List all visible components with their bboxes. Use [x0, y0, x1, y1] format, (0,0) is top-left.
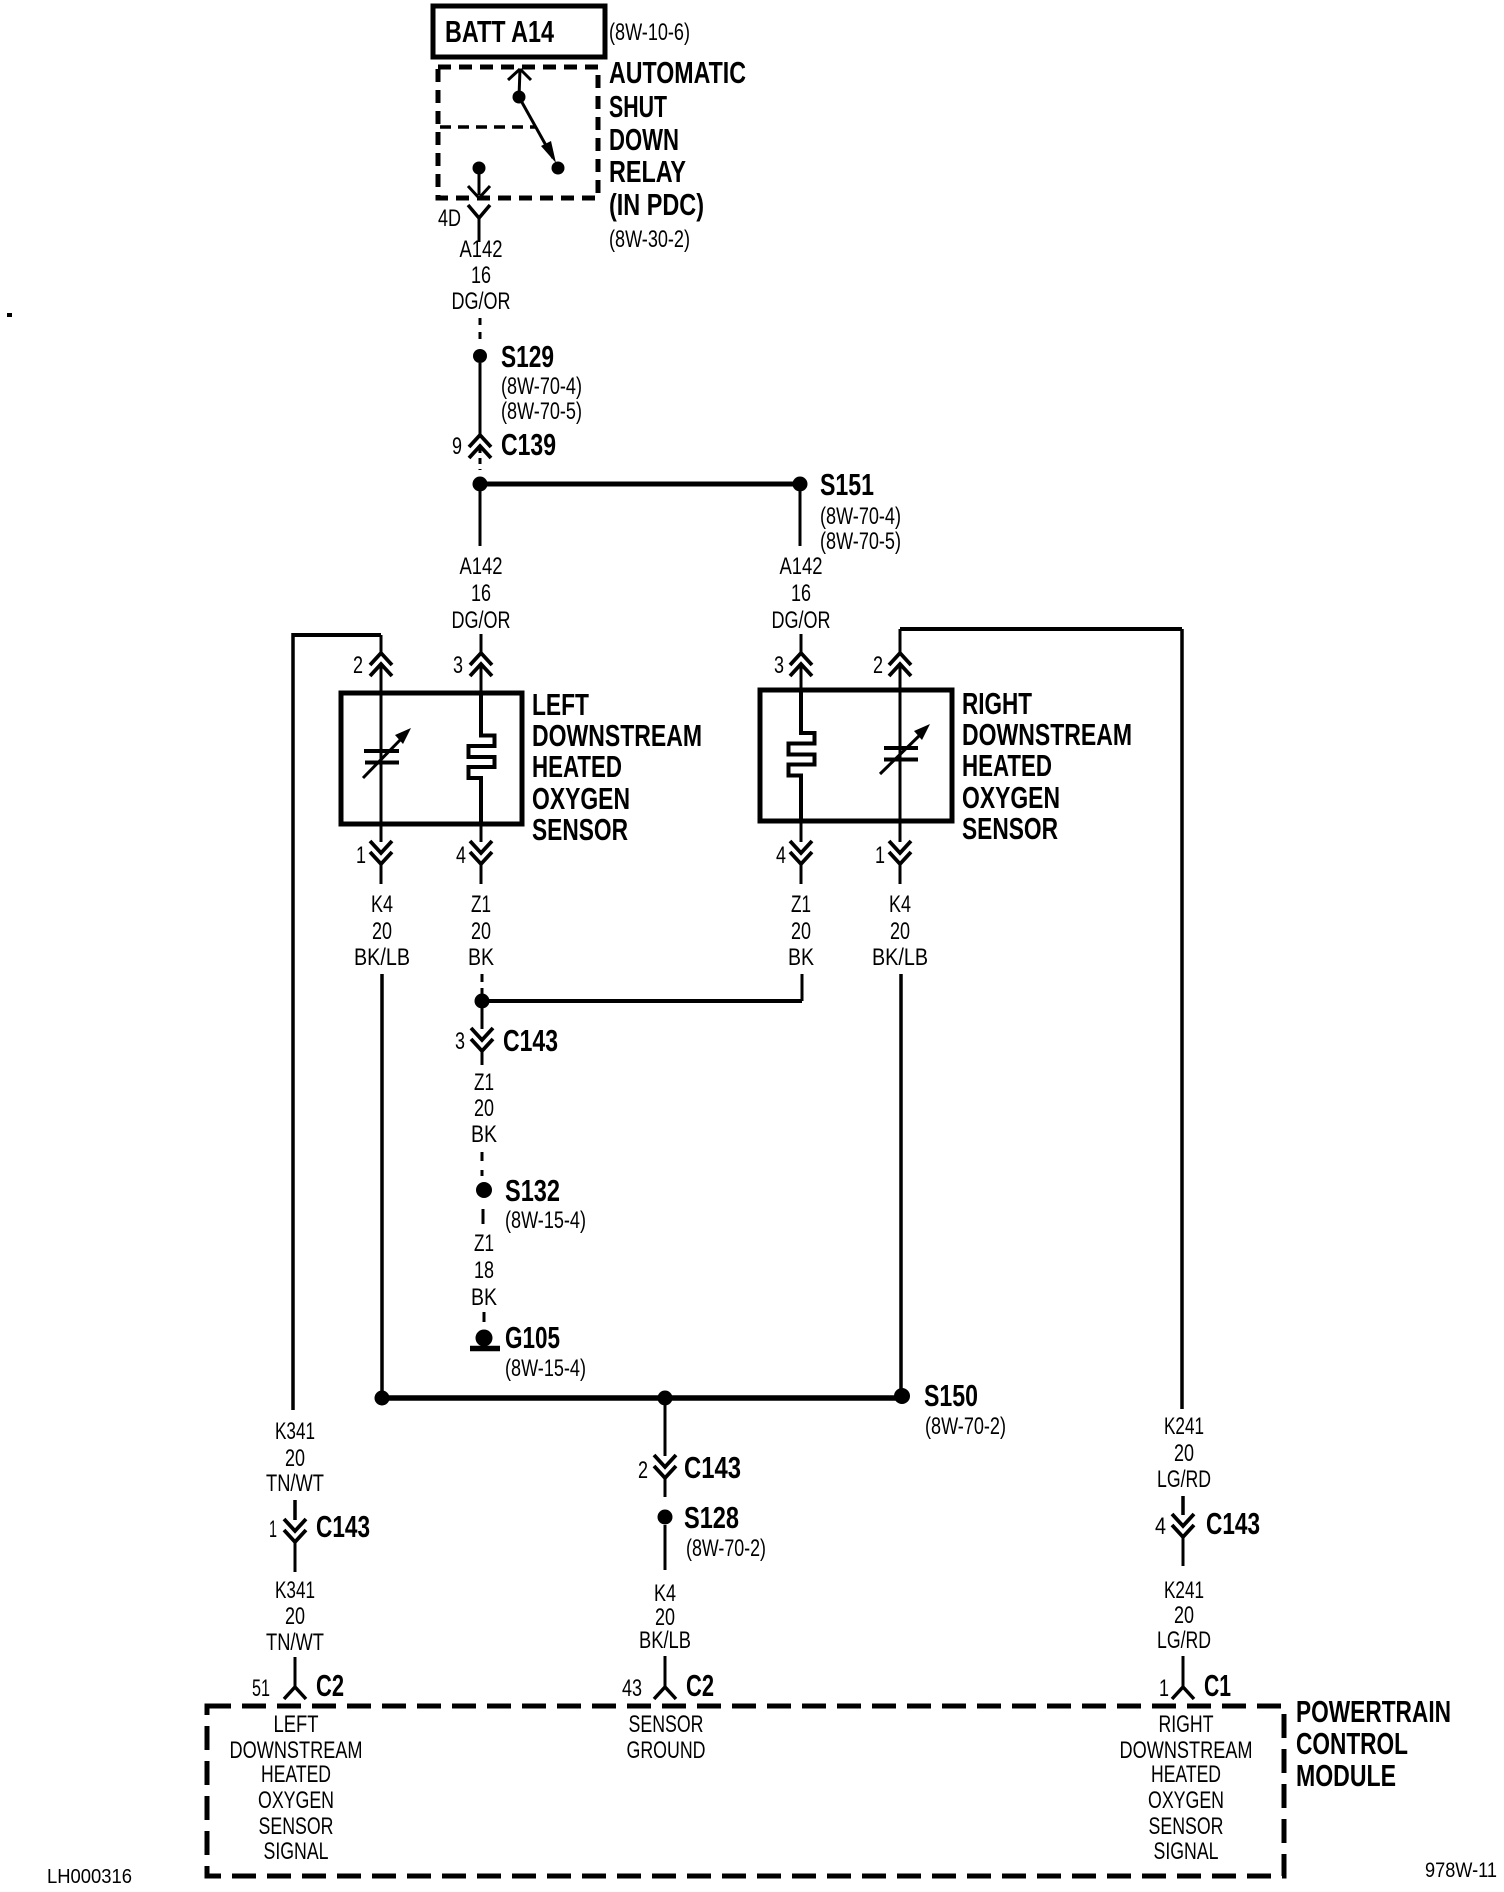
PCM pin function right — [1120, 1711, 1253, 1865]
svg-text:BATT A14: BATT A14 — [445, 14, 555, 49]
svg-text:20: 20 — [1174, 1602, 1194, 1629]
svg-text:OXYGEN: OXYGEN — [1148, 1787, 1224, 1814]
pin number 1 C1 — [1159, 1675, 1169, 1702]
connector C139 pin 9 — [469, 435, 491, 470]
relay output pin 4D — [468, 162, 490, 199]
wire label Z1 20 BK left — [468, 891, 494, 971]
wire dashed to G105 — [483, 1312, 486, 1322]
svg-text:K241: K241 — [1164, 1577, 1204, 1604]
svg-text:Z1: Z1 — [791, 891, 811, 918]
footer code LH000316 — [47, 1866, 132, 1888]
svg-text:C143: C143 — [684, 1450, 741, 1485]
relay name AUTOMATIC SHUT DOWN RELAY (IN PDC) — [609, 55, 746, 222]
svg-text:C143: C143 — [503, 1023, 558, 1058]
wire Z1 down to C143 — [481, 1008, 484, 1029]
svg-text:SHUT: SHUT — [609, 89, 667, 124]
svg-text:DOWNSTREAM: DOWNSTREAM — [1120, 1737, 1253, 1764]
svg-text:TN/WT: TN/WT — [266, 1470, 324, 1497]
wire into left box pin 3 — [480, 664, 483, 694]
svg-text:HEATED: HEATED — [1151, 1761, 1221, 1788]
label (8W-15-4) at G105 — [505, 1355, 586, 1382]
wire left pin 1 out — [380, 824, 383, 842]
svg-text:1: 1 — [875, 842, 885, 869]
pin number 3 left — [453, 652, 463, 679]
right sensor heater element — [789, 690, 815, 821]
svg-text:(8W-70-5): (8W-70-5) — [501, 398, 582, 425]
wire label K4 20 BK/LB left — [354, 891, 410, 971]
wire label K241 20 LG/RD upper — [1157, 1413, 1211, 1493]
splice S150 — [894, 1388, 910, 1404]
label (8W-30-2) — [609, 226, 690, 253]
svg-text:OXYGEN: OXYGEN — [258, 1787, 334, 1814]
wire bus to C143 pin 2 — [664, 1404, 667, 1456]
svg-text:HEATED: HEATED — [962, 748, 1052, 783]
svg-text:20: 20 — [372, 918, 392, 945]
wire into right box pin 3 — [800, 664, 803, 691]
relay common pin arrow to BATT — [508, 69, 531, 104]
wire dashed segment — [479, 318, 482, 342]
wire K241 to C143 — [1181, 1496, 1185, 1515]
label C143 right — [1206, 1506, 1260, 1541]
label S129 — [501, 339, 554, 374]
pin number 4 right — [776, 842, 786, 869]
svg-text:C139: C139 — [501, 427, 556, 462]
svg-text:(8W-70-2): (8W-70-2) — [686, 1535, 766, 1562]
svg-text:CONTROL: CONTROL — [1296, 1726, 1408, 1761]
pin number 2 left — [353, 652, 363, 679]
svg-text:OXYGEN: OXYGEN — [532, 781, 630, 816]
right downstream heated oxygen sensor box — [760, 690, 952, 821]
svg-text:K4: K4 — [654, 1580, 676, 1607]
connector 4D female fork — [468, 205, 490, 218]
wire into left box pin 2 — [380, 664, 383, 694]
wire left K4 down to ground bus — [380, 974, 384, 1398]
svg-text:BK: BK — [788, 944, 814, 971]
wire below S128 — [664, 1525, 667, 1570]
wire K341 to PCM — [294, 1657, 297, 1687]
wire ground bus — [382, 1395, 901, 1401]
svg-text:16: 16 — [471, 262, 491, 289]
svg-text:DG/OR: DG/OR — [452, 288, 511, 315]
pin number 4 left — [456, 842, 466, 869]
svg-text:K4: K4 — [889, 891, 911, 918]
svg-text:2: 2 — [638, 1457, 648, 1484]
svg-text:G105: G105 — [505, 1320, 560, 1355]
svg-text:LG/RD: LG/RD — [1157, 1466, 1211, 1493]
footer code 978W-11 — [1425, 1859, 1497, 1882]
svg-text:RIGHT: RIGHT — [962, 686, 1032, 721]
pin number 1 left — [356, 842, 366, 869]
wire stub right K4 — [899, 864, 902, 884]
splice S132 — [476, 1182, 492, 1198]
wire stub left Z1 — [480, 864, 483, 884]
junction node bus left — [375, 1391, 390, 1406]
svg-text:3: 3 — [774, 652, 784, 679]
PCM pin function middle — [627, 1711, 706, 1764]
pin number 9 — [452, 433, 462, 460]
label C2 left — [316, 1668, 344, 1703]
svg-text:BK/LB: BK/LB — [639, 1627, 691, 1654]
pin number 1 right — [875, 842, 885, 869]
wire into right box pin 2 — [899, 664, 902, 691]
connector C143 pin 2 — [654, 1455, 676, 1497]
svg-text:16: 16 — [471, 580, 491, 607]
svg-text:BK/LB: BK/LB — [354, 944, 410, 971]
connector pin 4 right — [790, 841, 812, 864]
svg-text:43: 43 — [622, 1675, 642, 1702]
relay movable contact arm — [519, 97, 565, 175]
svg-text:SENSOR: SENSOR — [532, 812, 628, 847]
junction node below C139 — [473, 477, 488, 492]
svg-text:SIGNAL: SIGNAL — [1154, 1838, 1219, 1865]
wire right sensor pin 2 loop — [900, 629, 1182, 1409]
wire right Z1 down — [801, 974, 804, 1001]
svg-text:(8W-15-4): (8W-15-4) — [505, 1207, 586, 1234]
svg-text:4: 4 — [776, 842, 786, 869]
svg-text:20: 20 — [285, 1445, 305, 1472]
svg-text:1: 1 — [269, 1516, 277, 1543]
ground G105 — [470, 1330, 500, 1349]
label (8W-70-2) at S128 — [686, 1535, 766, 1562]
svg-text:20: 20 — [791, 918, 811, 945]
wire label K4 20 BK/LB middle — [639, 1580, 691, 1654]
left downstream heated oxygen sensor box — [341, 693, 522, 824]
svg-text:LEFT: LEFT — [274, 1711, 319, 1738]
svg-text:BK: BK — [468, 944, 494, 971]
wire label K4 20 BK/LB right — [872, 891, 928, 971]
svg-text:DOWNSTREAM: DOWNSTREAM — [230, 1737, 363, 1764]
svg-text:S129: S129 — [501, 339, 554, 374]
powertrain control module dashed box — [207, 1706, 1284, 1876]
svg-text:A142: A142 — [460, 236, 503, 263]
relay internal divider — [440, 125, 535, 129]
wire A142 below relay — [478, 218, 481, 242]
svg-text:POWERTRAIN: POWERTRAIN — [1296, 1694, 1451, 1729]
svg-text:(8W-70-4): (8W-70-4) — [501, 373, 582, 400]
label C2 middle — [686, 1668, 714, 1703]
svg-text:(8W-10-6): (8W-10-6) — [609, 19, 690, 46]
label C143 middle — [684, 1450, 741, 1485]
svg-text:LH000316: LH000316 — [47, 1866, 132, 1888]
splice S129 — [473, 349, 487, 363]
junction node Z1 — [475, 994, 490, 1009]
connector pin 3 left sensor — [470, 653, 492, 676]
right sensor name — [962, 686, 1132, 846]
svg-text:1: 1 — [356, 842, 366, 869]
connector pin 3 right sensor — [790, 653, 812, 676]
svg-text:SENSOR: SENSOR — [962, 811, 1058, 846]
svg-text:A142: A142 — [460, 553, 503, 580]
svg-text:RELAY: RELAY — [609, 154, 686, 189]
wire to right sensor pin 3 — [800, 634, 803, 654]
wire label K341 20 TN/WT upper — [266, 1418, 324, 1497]
svg-text:LEFT: LEFT — [532, 687, 589, 722]
wire K4 to PCM — [664, 1656, 667, 1687]
svg-text:3: 3 — [455, 1028, 465, 1055]
label C143 left — [316, 1509, 370, 1544]
svg-text:SENSOR: SENSOR — [1149, 1813, 1224, 1840]
label S151 — [820, 467, 874, 502]
svg-text:SIGNAL: SIGNAL — [264, 1838, 329, 1865]
svg-text:TN/WT: TN/WT — [266, 1629, 324, 1656]
svg-text:9: 9 — [452, 433, 462, 460]
label S128 — [684, 1500, 739, 1535]
label C139 — [501, 427, 556, 462]
wire dashed to S132 — [481, 1152, 484, 1176]
svg-text:(8W-15-4): (8W-15-4) — [505, 1355, 586, 1382]
svg-text:SENSOR: SENSOR — [259, 1813, 334, 1840]
connector C143 pin 4 — [1172, 1514, 1194, 1566]
wire stub left K4 — [380, 864, 383, 884]
svg-text:20: 20 — [285, 1603, 305, 1630]
labels (8W-70-4) (8W-70-5) at S151 — [820, 503, 901, 555]
label (8W-15-4) at S132 — [505, 1207, 586, 1234]
pin number 2 C143 — [638, 1457, 648, 1484]
wire label Z1 20 BK common — [471, 1069, 497, 1148]
svg-text:BK: BK — [471, 1121, 497, 1148]
wire dashed below S132 — [482, 1209, 485, 1224]
svg-text:3: 3 — [453, 652, 463, 679]
svg-text:MODULE: MODULE — [1296, 1758, 1396, 1793]
svg-text:(8W-70-2): (8W-70-2) — [925, 1413, 1006, 1440]
connector pin 2 right sensor — [889, 653, 911, 676]
svg-text:DG/OR: DG/OR — [772, 607, 831, 634]
svg-text:Z1: Z1 — [474, 1069, 494, 1096]
pin number 3 C143 — [455, 1028, 465, 1055]
wire right pin 4 out — [800, 821, 803, 842]
svg-text:C143: C143 — [316, 1509, 370, 1544]
svg-text:C1: C1 — [1204, 1668, 1231, 1703]
wire label K241 20 LG/RD lower — [1157, 1577, 1211, 1654]
svg-text:K241: K241 — [1164, 1413, 1204, 1440]
connector pin 4 left — [470, 841, 492, 864]
svg-text:SENSOR: SENSOR — [629, 1711, 704, 1738]
svg-text:S151: S151 — [820, 467, 874, 502]
svg-text:20: 20 — [1174, 1440, 1194, 1467]
svg-text:(8W-70-4): (8W-70-4) — [820, 503, 901, 530]
svg-text:C2: C2 — [686, 1668, 714, 1703]
pin label 4D — [438, 205, 461, 232]
svg-text:GROUND: GROUND — [627, 1737, 706, 1764]
wire left Z1 to splice — [481, 974, 484, 1001]
svg-text:4: 4 — [1155, 1513, 1166, 1540]
pin number 51 — [252, 1675, 270, 1702]
splice S128 — [658, 1510, 673, 1525]
wire S129 to C139 — [479, 363, 482, 435]
svg-text:Z1: Z1 — [474, 1230, 494, 1257]
pin number 43 — [622, 1675, 642, 1702]
wire junction down — [479, 491, 482, 546]
connector pin 1 left — [370, 841, 392, 864]
wire label K341 20 TN/WT lower — [266, 1577, 324, 1656]
connector pin 1 right — [889, 841, 911, 864]
wire S151 down — [799, 491, 802, 546]
svg-text:51: 51 — [252, 1675, 270, 1702]
svg-text:(IN PDC): (IN PDC) — [609, 187, 704, 222]
svg-text:(8W-70-5): (8W-70-5) — [820, 528, 901, 555]
wire label A142 16 DG/OR — [452, 236, 511, 315]
svg-text:DOWN: DOWN — [609, 122, 679, 157]
svg-text:BK: BK — [471, 1284, 497, 1311]
svg-text:S150: S150 — [924, 1378, 978, 1413]
right sensor element (variable) — [880, 690, 930, 821]
wire left pin 4 out — [480, 824, 483, 842]
wire stub right Z1 — [800, 864, 803, 884]
svg-text:1: 1 — [1159, 1675, 1169, 1702]
wire left sensor pin 2 loop — [293, 633, 381, 1410]
svg-text:DG/OR: DG/OR — [452, 607, 511, 634]
connector C143 pin 1 — [284, 1519, 306, 1572]
svg-text:C2: C2 — [316, 1668, 344, 1703]
stray mark — [7, 313, 12, 317]
svg-text:OXYGEN: OXYGEN — [962, 780, 1060, 815]
svg-text:(8W-30-2): (8W-30-2) — [609, 226, 690, 253]
svg-text:2: 2 — [873, 652, 883, 679]
svg-text:4D: 4D — [438, 205, 461, 232]
svg-text:DOWNSTREAM: DOWNSTREAM — [962, 717, 1132, 752]
connector pin 2 left sensor — [370, 653, 392, 676]
svg-text:20: 20 — [890, 918, 910, 945]
connector C143 pin 3 — [471, 1028, 493, 1065]
svg-text:C143: C143 — [1206, 1506, 1260, 1541]
wire K241 to PCM — [1182, 1656, 1185, 1687]
connector C2 pin 51 fork — [284, 1687, 306, 1699]
left sensor name — [532, 687, 702, 847]
pin number 4 C143 — [1155, 1513, 1166, 1540]
svg-text:978W-11: 978W-11 — [1425, 1859, 1497, 1882]
labels (8W-70-4) (8W-70-5) — [501, 373, 582, 425]
svg-text:4: 4 — [456, 842, 466, 869]
svg-text:K341: K341 — [275, 1577, 315, 1604]
pin number 3 right — [774, 652, 784, 679]
svg-text:S128: S128 — [684, 1500, 739, 1535]
connector C1 pin 1 fork — [1172, 1687, 1194, 1699]
svg-text:S132: S132 — [505, 1173, 560, 1208]
svg-text:A142: A142 — [780, 553, 823, 580]
svg-text:20: 20 — [474, 1095, 494, 1122]
label S150 — [924, 1378, 978, 1413]
connector C2 pin 43 fork — [654, 1687, 676, 1699]
svg-text:K341: K341 — [275, 1418, 315, 1445]
wire right pin 1 out — [899, 821, 902, 842]
wire to left sensor pin 3 — [480, 634, 483, 654]
svg-text:LG/RD: LG/RD — [1157, 1627, 1211, 1654]
battery feed box BATT A14 — [433, 6, 605, 57]
wire junction to S151 — [480, 482, 800, 487]
wire label Z1 20 BK right — [788, 891, 814, 971]
svg-text:Z1: Z1 — [471, 891, 491, 918]
label S132 — [505, 1173, 560, 1208]
svg-text:DOWNSTREAM: DOWNSTREAM — [532, 718, 702, 753]
label (8W-10-6) — [609, 19, 690, 46]
wire label A142 16 DG/OR right — [772, 553, 831, 634]
svg-text:HEATED: HEATED — [261, 1761, 331, 1788]
svg-text:16: 16 — [791, 580, 811, 607]
label C1 — [1204, 1668, 1231, 1703]
label (8W-70-2) at S150 — [925, 1413, 1006, 1440]
wire K341 to C143 — [293, 1500, 297, 1520]
svg-text:K4: K4 — [371, 891, 393, 918]
splice S151 — [793, 477, 808, 492]
svg-text:RIGHT: RIGHT — [1159, 1711, 1214, 1738]
PCM name — [1296, 1694, 1451, 1793]
svg-text:18: 18 — [474, 1257, 494, 1284]
left sensor element (variable) — [363, 693, 411, 824]
label C143 Z1 — [503, 1023, 558, 1058]
wire label Z1 18 BK — [471, 1230, 497, 1311]
svg-text:20: 20 — [471, 918, 491, 945]
label G105 — [505, 1320, 560, 1355]
pin number 1 C143 — [269, 1516, 277, 1543]
PCM pin function left — [230, 1711, 363, 1865]
wire label A142 16 DG/OR left — [452, 553, 511, 634]
wire right K4 down to S150 — [899, 974, 903, 1398]
junction node bus middle — [658, 1391, 673, 1406]
svg-text:HEATED: HEATED — [532, 749, 622, 784]
relay K1 dashed enclosure — [438, 67, 598, 198]
svg-text:2: 2 — [353, 652, 363, 679]
svg-text:BK/LB: BK/LB — [872, 944, 928, 971]
pin number 2 right — [873, 652, 883, 679]
svg-text:AUTOMATIC: AUTOMATIC — [609, 55, 746, 90]
left sensor heater element — [469, 693, 495, 824]
wire Z1 common horizontal — [482, 999, 802, 1003]
